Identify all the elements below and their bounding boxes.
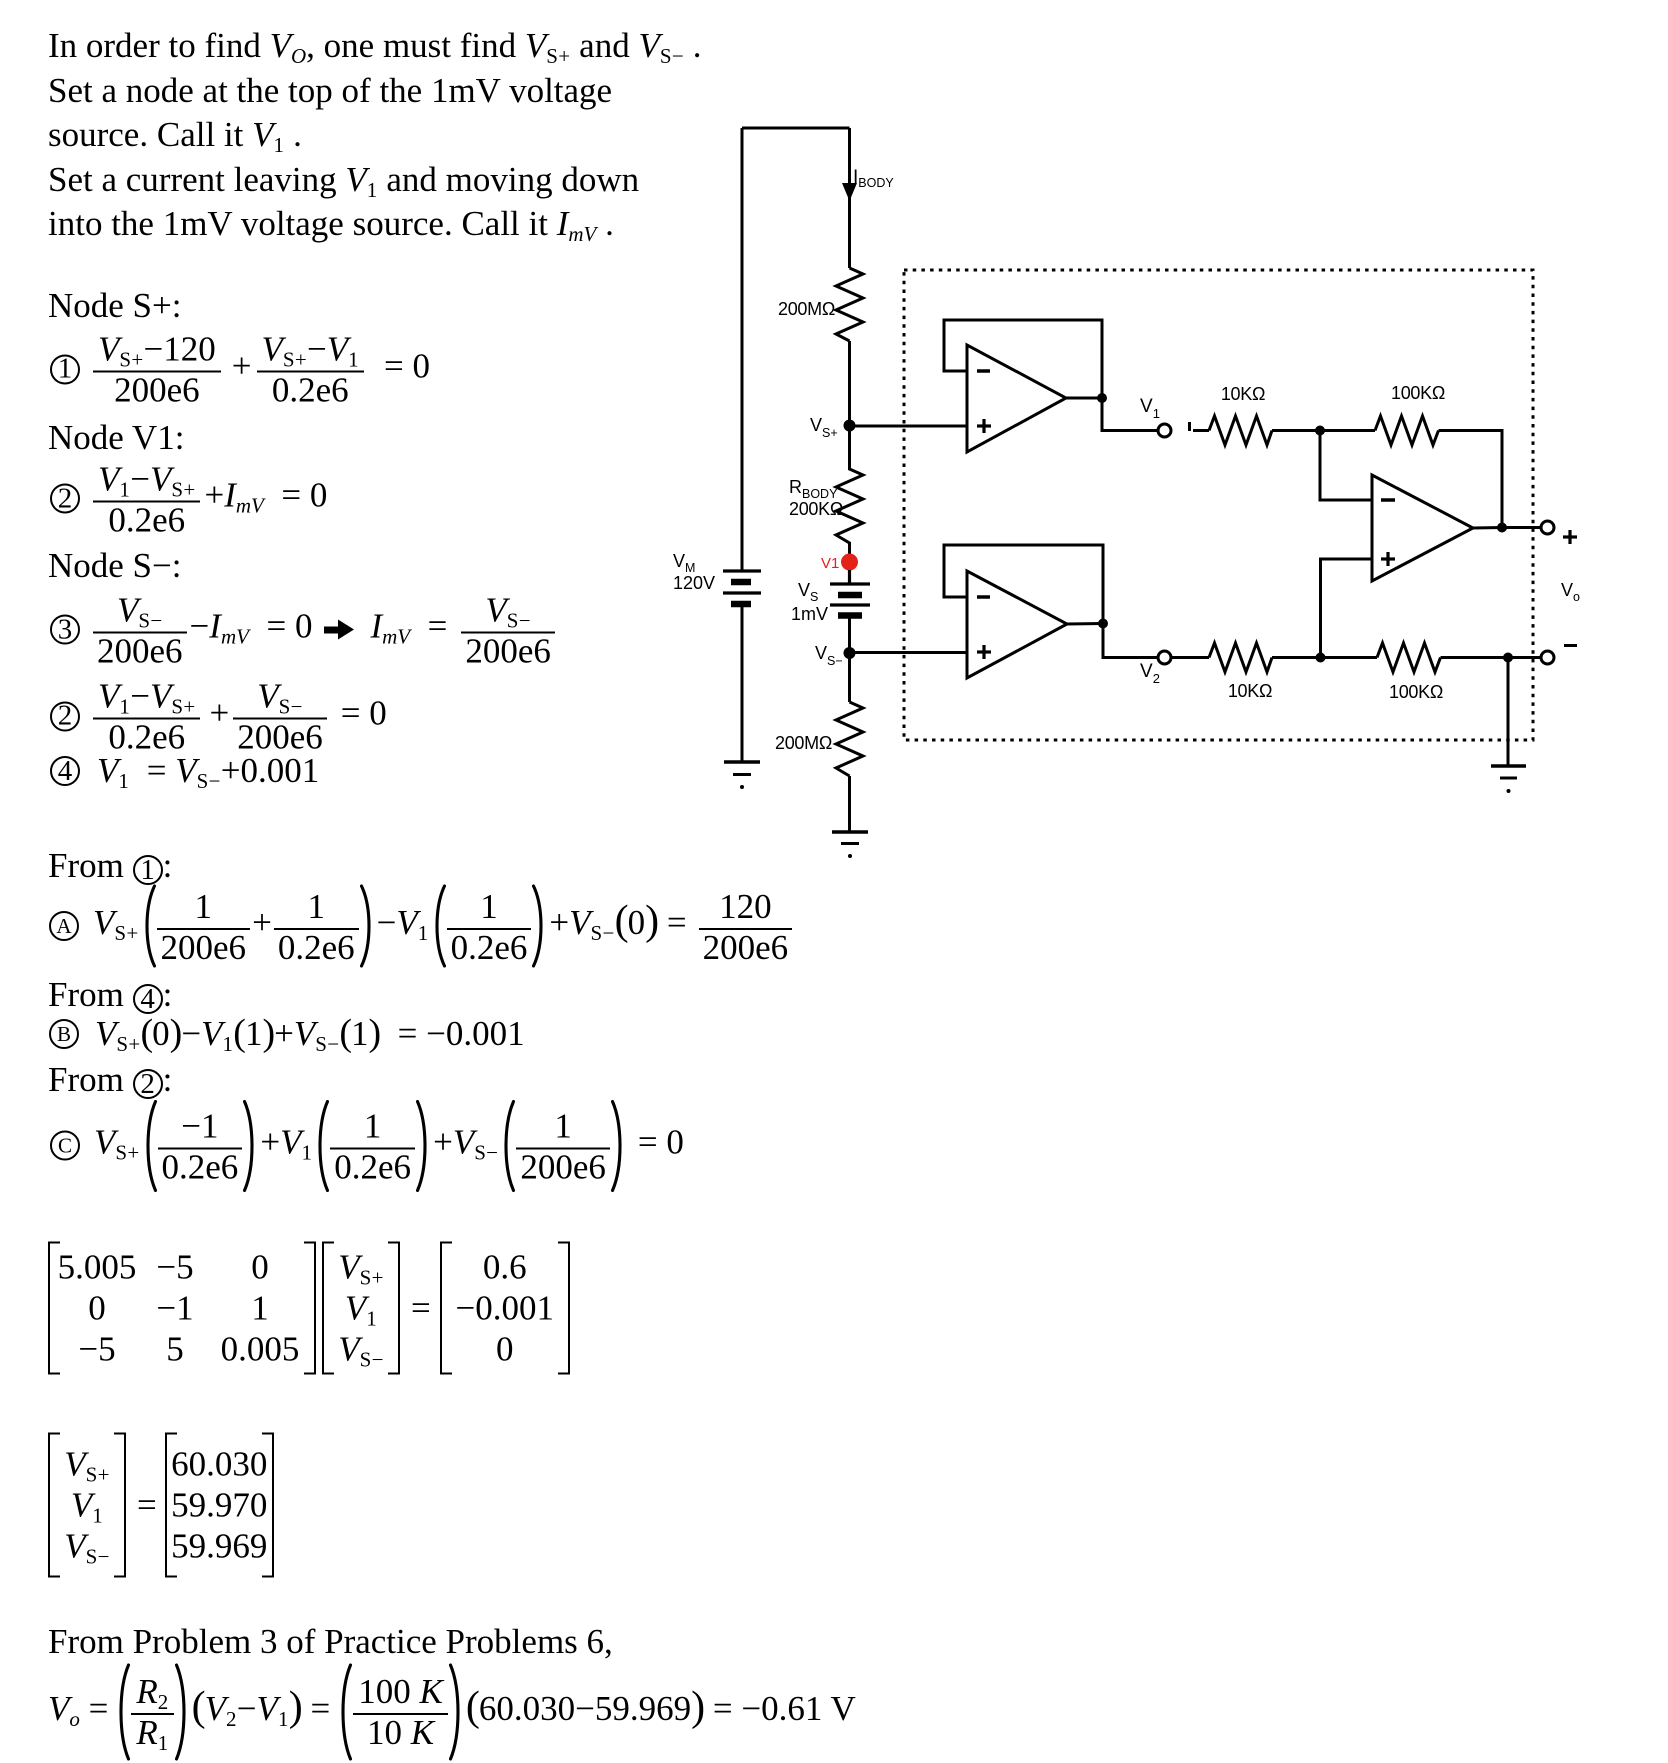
heading Node V1 (48, 416, 184, 461)
SVG SCHEMATIC (650, 100, 1630, 890)
svg-text:RBODY: RBODY (789, 477, 838, 501)
svg-text:120V: 120V (673, 573, 715, 593)
wire to R 10K bottom (1171, 656, 1209, 659)
ground (sensor) (832, 832, 868, 858)
heading From 1 (48, 844, 172, 889)
svg-text:V1: V1 (821, 555, 839, 572)
wire junction to 100K (1320, 429, 1375, 432)
label minus (1564, 644, 1577, 647)
wire VM to ground (741, 604, 744, 762)
terminal + (open) (1541, 521, 1554, 534)
equation 1 (50, 330, 430, 409)
wire to R 10K top (1193, 429, 1209, 432)
junction U2 out (1098, 619, 1108, 629)
label + (1563, 535, 1577, 538)
svg-text:1mV: 1mV (791, 604, 828, 624)
svg-text:V2: V2 (1140, 661, 1160, 686)
svg-text:100KΩ: 100KΩ (1391, 383, 1445, 403)
closing text (48, 1620, 613, 1665)
resistor 100K (bottom) (1377, 643, 1441, 672)
heading Node S- (48, 544, 182, 589)
svg-text:IBODY: IBODY (853, 167, 894, 190)
U2 output wire (1067, 622, 1103, 626)
equation 2b (50, 677, 387, 756)
voltage source VM 120V (723, 571, 761, 604)
svg-text:10KΩ: 10KΩ (1228, 681, 1272, 701)
equation B (49, 1014, 525, 1054)
resistor RBODY 200K (836, 426, 863, 554)
U3 output wire (1473, 526, 1502, 530)
equation A (49, 884, 792, 968)
wire junction to 100K bottom (1321, 656, 1378, 659)
wire down to ground right (1507, 658, 1510, 767)
wire U2 out down to V2 terminal (1103, 624, 1158, 658)
resistor 10K (top) (1209, 416, 1272, 445)
ground (output) (1491, 766, 1526, 793)
wire 10K to junction bottom (1272, 656, 1321, 659)
junction U3 out (1497, 523, 1507, 533)
node V1 terminal (open) (1158, 424, 1171, 437)
op-amp U2 (bottom buffer) (967, 571, 1067, 678)
wire to ground (848, 776, 851, 832)
node V1 (red) (841, 554, 858, 571)
svg-text:VS−: VS− (815, 643, 843, 668)
node V2 terminal (open) (1158, 651, 1171, 664)
wire to + terminal (1502, 526, 1541, 529)
terminal - (open) (1541, 651, 1554, 664)
resistor 10K (bottom) (1209, 643, 1272, 672)
wire to - terminal (1508, 656, 1541, 659)
svg-text:VS+: VS+ (810, 415, 838, 440)
svg-text:VS: VS (798, 580, 818, 604)
wire 10K to junction (1272, 429, 1320, 432)
svg-text:200MΩ: 200MΩ (775, 733, 832, 753)
wire 100K to ground junction (1441, 656, 1509, 659)
resistor 100K (top feedback) (1375, 416, 1439, 445)
equation 3 (50, 590, 555, 669)
wire VS- to op-amp U2 (850, 651, 968, 654)
heading Node S+ (48, 284, 182, 329)
U1 feedback wire (944, 320, 1102, 398)
wire VS to VS- node (848, 616, 851, 654)
svg-text:200KΩ: 200KΩ (789, 499, 843, 519)
U2 feedback wire (944, 545, 1103, 623)
wire top horizontal (742, 127, 850, 130)
equation C (50, 1099, 684, 1192)
svg-text:V1: V1 (1140, 396, 1160, 421)
node VS- (844, 647, 856, 659)
U1 output wire (1066, 397, 1102, 400)
junction node bottom (1316, 653, 1326, 663)
equation 2 (50, 459, 327, 538)
matrix equation 2 (48, 1433, 274, 1578)
dashed amplifier box (904, 270, 1533, 740)
wire U3 plus input (1321, 559, 1373, 658)
op-amp U3 (difference) (1372, 475, 1473, 581)
wire 100K to output (1439, 431, 1503, 528)
wire resistor to VS+ (848, 341, 851, 426)
svg-text:200MΩ: 200MΩ (778, 299, 835, 319)
wire U1 out down to V1 terminal (1102, 398, 1158, 431)
op-amp U1 (top buffer) (967, 345, 1066, 452)
svg-text:VM: VM (673, 551, 695, 575)
node VS+ (844, 420, 856, 432)
tick mark (1188, 422, 1191, 431)
wire VS- down (848, 653, 851, 702)
junction U1 out (1097, 393, 1107, 403)
voltage source VS 1mV (830, 570, 870, 616)
paragraph 1 (48, 24, 701, 247)
svg-text:Vo: Vo (1561, 580, 1580, 604)
wire junction down to U3 minus (1320, 431, 1372, 501)
svg-text:100KΩ: 100KΩ (1389, 682, 1443, 702)
wire left battery lead (741, 128, 744, 571)
ground (VM) (724, 762, 760, 789)
final equation (48, 1663, 856, 1761)
current arrow IBODY (842, 183, 857, 201)
equation 4 (50, 751, 319, 791)
junction node top (1315, 426, 1325, 436)
junction ground node (1503, 653, 1513, 663)
wire main rail top (848, 128, 851, 268)
resistor 200M (bottom) (836, 702, 863, 776)
resistor 200M (top) (836, 268, 863, 341)
matrix equation 1 (48, 1242, 570, 1375)
heading From 4 (48, 973, 172, 1018)
heading From 2 (48, 1058, 172, 1103)
wire VS+ to op-amp U1 (850, 425, 968, 428)
svg-text:10KΩ: 10KΩ (1221, 384, 1265, 404)
